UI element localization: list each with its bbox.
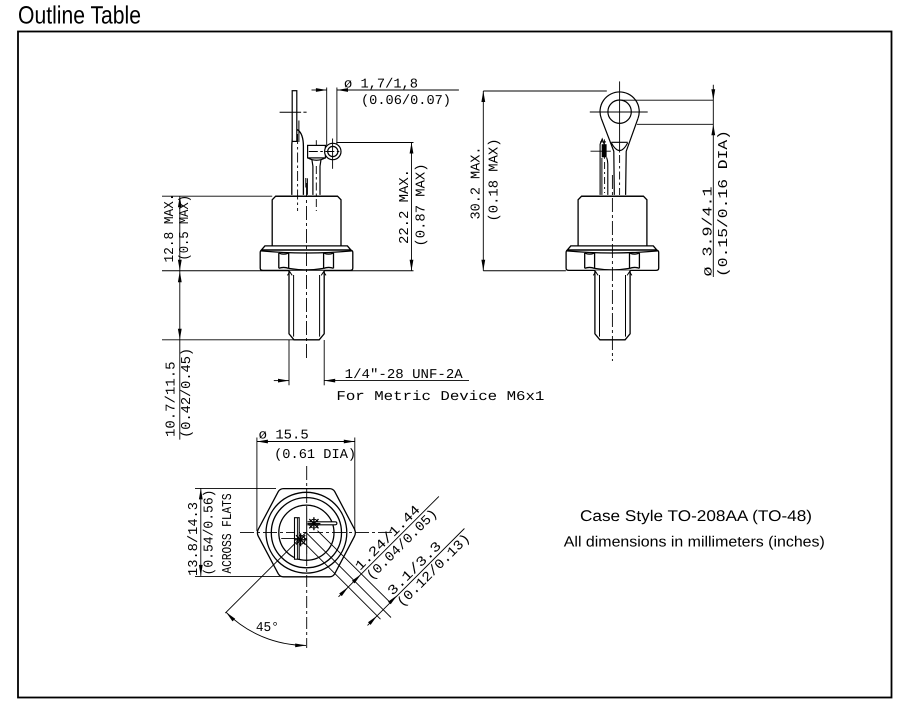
dimension stud extension lines [288,340,290,385]
weld star on ring lead [307,517,320,530]
threaded stud F2 [595,270,630,339]
thread start marks F2 [593,272,598,276]
arrow dimD2 b [388,595,397,604]
vertical centerline bottom view [306,466,308,508]
svg-text:30.2 MAX.: 30.2 MAX. [470,147,485,220]
arrow dim22.2 up [410,143,414,154]
svg-text:(0.42/0.45): (0.42/0.45) [180,348,195,438]
dimension 1.7/1.8 line [312,89,327,91]
dimension 10.7/11.5 extension line [162,339,294,341]
dimension 15.5 line [257,441,355,443]
arrow dim13.8 down [199,565,203,576]
dimension 1.7/1.8 extension lines [326,88,328,147]
ring lug F2 hole [608,100,631,123]
arrow dimD1 a [339,587,348,596]
svg-text:12.8 MAX.: 12.8 MAX. [163,194,178,263]
threaded stud F2 thread root lines [599,275,601,337]
flat tab lead F2 (edge-on) [600,139,604,195]
centerline lug lead F1 [315,140,317,145]
svg-text:(0.15/0.16 DIA): (0.15/0.16 DIA) [717,130,732,277]
dimension 13.8/14.3 line [200,488,202,576]
hex nut F1 top washer-face arc [261,251,353,253]
svg-text:22.2 MAX.: 22.2 MAX. [398,169,413,244]
pin lead with dome tip F1 [292,130,304,195]
hex nut F2 facet arcs [585,253,595,254]
arrow dim22.2 down [410,260,414,271]
ring lug F2 vertical centerline [619,81,621,152]
dimension 30.2 line [482,91,484,271]
braid lead F2 [607,157,608,195]
arrow dim30.2 up [481,91,485,102]
ring terminal F1 outer [325,143,341,159]
ring lead strip bottom view [308,522,337,525]
dimension 45 deg arc [226,612,306,645]
crimp lug F1 [308,145,326,158]
dimension 3.9/4.1 extension lines [622,99,714,101]
leads centermark F2 [591,150,611,152]
arrow dim12.8 down [178,260,182,271]
diagonal 45 deg reference line to lower-left [225,532,306,613]
weld nugget circle on ring lead [310,519,319,528]
weld nugget circle on tab [296,535,305,544]
arrow dim10.7 up [178,271,182,282]
arrow dim10.7 down [178,329,182,340]
arrow stud left [278,379,289,383]
dimension 12.8 line [179,196,181,271]
threaded stud F1 [289,271,324,340]
body circle [266,492,347,573]
thread start marks F1 [287,272,292,276]
arrow dimD2 a [368,616,377,625]
svg-text:All dimensions in millimeters: All dimensions in millimeters (inches) [564,535,825,551]
crimp lug bottom arc F1 [308,158,326,160]
dimension 30.2 extension lines [483,90,607,92]
ring lug F2 crimp line [611,141,627,143]
arrow dim1.7 right [316,88,327,92]
ring terminal F1 hole [328,146,338,156]
arrow dim13.8 up [199,488,203,499]
arrowheads [178,88,715,647]
seating plane ext line F2 [483,270,566,272]
hex nut F2 top washer-face arc [567,251,659,253]
flat tab lead bottom view [295,518,300,560]
svg-text:ø 3.9/4.1: ø 3.9/4.1 [702,187,717,277]
case body F1 top edge [276,195,338,197]
centerline case F2 [611,175,613,361]
centerline case F1 [306,183,308,361]
flat tab lead F1 [292,91,297,142]
svg-text:(0.87 MAX): (0.87 MAX) [415,164,430,247]
svg-text:45°: 45° [256,621,279,636]
dimension 15.5 extension lines [256,438,258,532]
svg-text:10.7/11.5: 10.7/11.5 [165,362,180,438]
svg-text:(0.5 MAX): (0.5 MAX) [178,195,193,261]
svg-text:For Metric Device M6x1: For Metric Device M6x1 [336,390,544,405]
svg-text:(0.06/0.07): (0.06/0.07) [361,94,451,109]
centerline pin lead F1 [297,134,299,211]
inner circle [279,505,334,560]
flange F2 [567,246,656,250]
diagonal through ring-lead weld EL2 [318,531,391,603]
svg-text:ø 1,7/1,8: ø 1,7/1,8 [344,78,418,93]
dimension 3.9/4.1 line [712,85,714,277]
center diagonal E0 [306,532,391,617]
hex nut F1 corner facet lines [278,253,280,268]
small leads behind F1 [298,121,300,143]
arrow dim3.9 down [711,89,715,100]
diagonal through tab weld EL1 [303,542,381,620]
hex nut F2 corner facet lines [584,253,586,268]
flat tab F2 dark crimp bar [602,144,607,157]
body circle 2 [271,498,341,568]
ring lug F2 horizontal centerline [590,111,648,113]
dimension 13.8/14.3 extension lines [195,487,276,489]
case body F2 top edge [582,195,644,197]
ring lug F2 crimp vee [611,143,627,151]
arrow dim15.5 right [344,440,355,444]
dimension stud line [274,380,289,382]
arrow arc upleft [226,612,235,621]
dimension 10.7/11.5 line [179,271,181,440]
svg-text:(0.18 MAX): (0.18 MAX) [488,139,503,222]
hex nut F1 outline [260,250,353,270]
svg-text:(0.54/0.56): (0.54/0.56) [203,490,218,576]
case body F2 [578,196,647,246]
svg-text:Case Style TO-208AA (TO-48): Case Style TO-208AA (TO-48) [580,508,812,525]
svg-text:13.8/14.3: 13.8/14.3 [187,502,202,576]
horizontal centerline bottom view [240,531,393,533]
svg-text:ACROSS FLATS: ACROSS FLATS [221,494,236,574]
dimension 3.1/3.3 line D2 [368,529,465,626]
arrow dim15.5 left [257,440,268,444]
flange F1 [262,246,351,250]
weld star on tab [294,533,307,546]
arrow dim30.2 down [481,260,485,271]
hex nut F1 facet arcs [279,253,289,254]
dimension 1.24/1.44 line D1 [339,496,439,596]
dimension 22.2 line [411,143,413,271]
threaded stud F1 thread root lines [293,275,295,337]
arrow stud right [324,379,335,383]
arrow arc right [295,644,306,648]
case body F1 [272,196,341,246]
svg-text:(0.61 DIA): (0.61 DIA) [274,448,356,463]
lug lead neck F1 [312,160,313,195]
flat tab centermark bottom view [281,538,302,540]
arrow dimD1 b [352,574,361,583]
svg-text:ø 15.5: ø 15.5 [259,429,309,444]
ring terminal F1 centermarks [332,139,334,169]
dimension 12.8 extension line [162,195,272,197]
svg-text:1/4"-28 UNF-2A: 1/4"-28 UNF-2A [345,368,464,383]
arrow dim12.8 up [178,196,182,207]
seating plane line F1 [162,270,414,272]
ring lug taper F2 [601,119,614,195]
arrow dim3.9 up [711,124,715,135]
arrow dim1.7 left [337,88,348,92]
leads centerline F2 [604,162,606,193]
ring lug F2 outer arc [600,92,639,119]
dimension 22.2 extension line [336,142,413,144]
hexagon outline [257,489,355,577]
hex nut F2 outline [566,250,659,270]
svg-text:Outline Table: Outline Table [18,2,141,30]
flat tab centerline mark F1 [280,111,302,113]
